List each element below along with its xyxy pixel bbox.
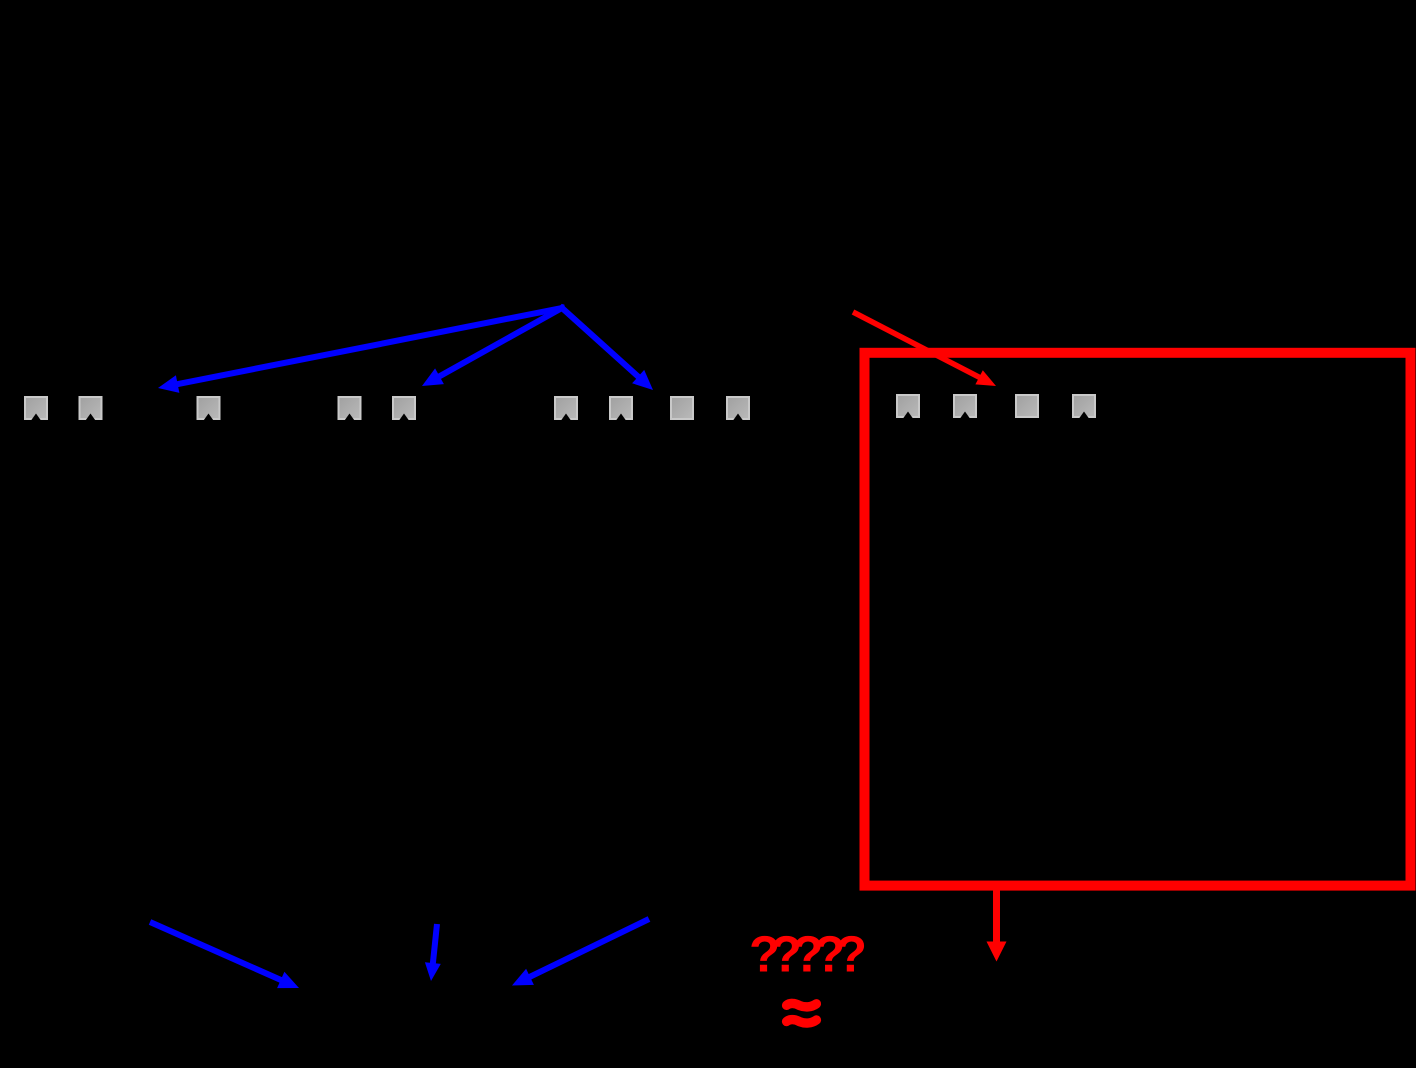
red arrow H head	[987, 942, 1007, 962]
wire blue arrow D shaft (bottom left)	[150, 922, 284, 981]
node token square 1	[25, 397, 47, 421]
node C head	[632, 370, 653, 390]
node A head	[158, 375, 179, 393]
wire red arrow G shaft (diagonal into box)	[853, 312, 982, 379]
node token square 3	[198, 397, 220, 421]
node token square 6	[555, 397, 577, 421]
wire blue arrow E shaft (bottom middle)	[433, 924, 437, 966]
wire blue arrow A shaft (origin to left)	[175, 307, 565, 384]
node token square 8	[671, 397, 693, 419]
node token square 9	[727, 397, 749, 421]
blue arrow F head	[512, 969, 534, 986]
blue arrow D head	[277, 972, 299, 988]
node token square 2	[80, 397, 102, 421]
svg-text:?????: ?????	[749, 926, 867, 983]
wire red arrow H shaft (down from box)	[993, 890, 1000, 945]
node token square 5	[393, 397, 415, 421]
node token square 12	[1016, 395, 1038, 417]
node token square 13	[1073, 395, 1095, 419]
wire blue arrow C shaft (origin to right)	[560, 306, 641, 379]
node token square 4	[339, 397, 361, 421]
node token square 11	[954, 395, 976, 419]
wire blue arrow F shaft (bottom right)	[527, 919, 649, 978]
red arrow G head	[975, 370, 996, 386]
blue arrow E head	[425, 962, 441, 981]
node token square 10	[897, 395, 919, 419]
red approx symbol	[787, 1003, 817, 1006]
node B head	[422, 368, 444, 386]
wire blue arrow B shaft (origin to middle)	[437, 307, 565, 378]
node token square 7	[610, 397, 632, 421]
red rectangle box	[865, 353, 1411, 886]
